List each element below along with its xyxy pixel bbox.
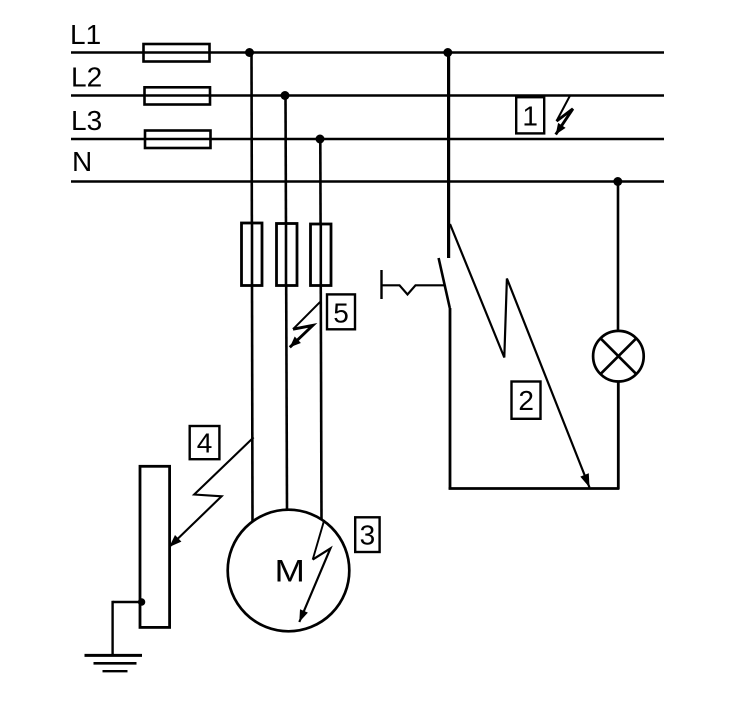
line through fuse VF2 (285, 224, 288, 286)
fuse VF2 on drop2 (277, 224, 298, 286)
switch actuator tick (380, 270, 382, 299)
fuse VF3 on drop3 (311, 224, 332, 286)
line through fuse F2 (145, 94, 211, 97)
wire N bus (71, 180, 664, 183)
heating element resistor R1 (140, 466, 170, 627)
wire element to ground vertical (111, 601, 113, 655)
junction dot N lamp drop (613, 177, 622, 186)
wire switch drop lower (449, 308, 452, 490)
junction dot on element (138, 598, 145, 605)
lightning arrow 2 (450, 224, 590, 488)
svg-text:N: N (72, 146, 92, 177)
line through fuse F3 (145, 138, 211, 141)
label box 4 (190, 426, 220, 459)
lightning arrow 3 (299, 520, 330, 622)
fuse F1 on L1 (144, 44, 210, 62)
wire drop1 from L1 to motor (252, 53, 253, 522)
wire L2 bus (71, 94, 664, 97)
svg-text:L2: L2 (71, 62, 102, 93)
wire L3 bus (71, 138, 664, 141)
lamp E1 cross (601, 338, 637, 374)
wire lamp drop upper (617, 182, 620, 332)
junction dot L1 switch drop (443, 48, 452, 57)
junction dot L2 drop2 (281, 91, 290, 100)
line through fuse F1 (144, 51, 210, 54)
svg-text:L3: L3 (71, 105, 102, 136)
wire bottom return (449, 487, 619, 490)
label box 1 (516, 97, 544, 133)
svg-text:5: 5 (333, 297, 349, 328)
motor M1 circle (228, 510, 350, 632)
junction dot L1 drop1 (245, 48, 254, 57)
label box 2 (512, 382, 541, 419)
wire lamp drop lower (617, 381, 620, 489)
wire switch drop upper (447, 53, 450, 259)
fuse F3 on L3 (145, 131, 211, 149)
lamp E1 circle (593, 331, 644, 382)
wire drop2 from L2 to motor (286, 96, 288, 511)
svg-text:L1: L1 (70, 19, 101, 50)
lightning arrow 5 (290, 301, 321, 347)
switch blade S1 (439, 258, 450, 308)
wire drop3 from L3 to motor (320, 139, 321, 520)
fuse F2 on L2 (145, 87, 211, 104)
svg-text:2: 2 (518, 385, 534, 416)
svg-text:3: 3 (360, 520, 376, 551)
line through fuse VF3 (319, 224, 322, 286)
svg-text:1: 1 (522, 101, 538, 132)
junction dot L3 drop3 (316, 135, 325, 144)
label box 3 (355, 517, 379, 552)
line through fuse VF1 (251, 223, 254, 286)
switch actuator link with chevron (382, 285, 445, 294)
wire L1 bus (71, 51, 664, 54)
svg-text:4: 4 (197, 428, 213, 459)
svg-text:M: M (274, 554, 304, 589)
lightning arrow 4 (169, 437, 253, 547)
label box 5 (327, 294, 355, 329)
ground symbol (85, 655, 143, 671)
fuse VF1 on drop1 (242, 223, 263, 286)
wire element to ground horizontal (113, 601, 142, 603)
lightning arrow 1 (556, 95, 573, 135)
